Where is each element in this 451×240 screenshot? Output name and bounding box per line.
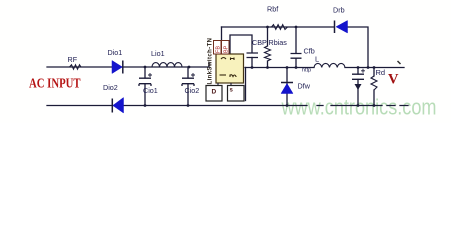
capacitor CBP bottom wire: [251, 58, 253, 68]
svg-text:FB: FB: [215, 46, 221, 53]
svg-text:CBP: CBP: [252, 38, 267, 47]
svg-text:Rbf: Rbf: [267, 5, 278, 14]
wire S pin: [245, 68, 247, 101]
junction Cio1 bottom rail: [144, 104, 147, 107]
svg-text:RF: RF: [68, 55, 78, 64]
diode Dio1: [112, 61, 123, 74]
pin box D: [206, 86, 222, 102]
pin box S: [228, 86, 245, 102]
wire bottom rail right end dashes: [387, 105, 408, 107]
wire bottom rail solid: [47, 105, 307, 107]
pin box FB: [214, 41, 222, 55]
resistor RF: [70, 65, 82, 69]
IC pin stubs: [218, 83, 231, 86]
capacitor Cio2 vertical wires: [187, 67, 189, 106]
junction Rbias source rail: [266, 66, 269, 69]
capacitor Cout wires: [357, 68, 359, 106]
junction Drb return output rail: [367, 66, 370, 69]
svg-text:Lio1: Lio1: [151, 49, 165, 58]
capacitor Cio2 plates: [182, 73, 195, 86]
svg-text:Dio2: Dio2: [103, 83, 118, 92]
wire Dfw branch: [286, 68, 288, 106]
tick mark near output: [398, 61, 401, 64]
svg-text:Dio1: Dio1: [108, 48, 123, 57]
wire FB pin: [221, 27, 223, 41]
capacitor Cout polarity arrow: [355, 84, 362, 90]
capacitor Cout plates: [352, 69, 365, 80]
resistor Rbias wires: [267, 27, 269, 68]
svg-text:V: V: [388, 72, 399, 88]
wire BP pin to CBP: [230, 35, 252, 53]
svg-text:http: http: [302, 68, 311, 74]
wire FB rail top: [222, 27, 369, 68]
wire switch rail: [245, 67, 404, 69]
junction Cout bottom rail: [357, 104, 360, 107]
op-amp U1 : LinkSwitch-TN IC body: [216, 54, 244, 83]
diode Dfw: [281, 83, 293, 94]
junction Cio2 bottom rail: [187, 104, 190, 107]
IC inner pin marks: [220, 58, 237, 78]
resistor Rbf: [272, 25, 288, 30]
junction Dfw bottom rail: [286, 104, 289, 107]
junction Cio2 top rail: [188, 66, 191, 69]
capacitor Cfb plates: [291, 54, 302, 59]
svg-text:Drb: Drb: [333, 6, 345, 15]
svg-text:Dfw: Dfw: [298, 82, 311, 91]
pin box BP: [222, 41, 230, 55]
svg-text:Rbias: Rbias: [269, 38, 288, 47]
svg-text:AC INPUT: AC INPUT: [29, 77, 81, 92]
capacitor Cio1 vertical wires: [144, 67, 146, 106]
junction CBP source rail: [251, 66, 254, 69]
junction Cfb source rail: [295, 66, 298, 69]
svg-text:Cio2: Cio2: [185, 86, 200, 95]
inductor Lio1: [152, 63, 182, 67]
junction Dfw source rail: [286, 66, 289, 69]
junction Cout output rail: [357, 66, 360, 69]
svg-text:Cio1: Cio1: [143, 86, 158, 95]
svg-text:BP: BP: [223, 45, 229, 53]
svg-text:L: L: [315, 55, 319, 64]
resistor Rd wires: [373, 68, 375, 106]
capacitor CBP plates: [247, 53, 259, 58]
wire bottom rail under output: [352, 105, 382, 107]
junction Rd bottom rail: [373, 104, 376, 107]
resistor Rbias zigzag: [265, 46, 271, 61]
wire bottom rail dashed segments: [317, 105, 351, 107]
svg-text:LinkSwitch-TN: LinkSwitch-TN: [208, 38, 214, 85]
wire top input rail: [47, 63, 209, 68]
svg-text:Cfb: Cfb: [304, 47, 315, 56]
inductor L (output): [314, 63, 345, 67]
svg-text:D: D: [212, 89, 217, 96]
svg-text:Rd: Rd: [376, 68, 386, 77]
capacitor Cfb wires: [295, 27, 297, 68]
resistor Rd zigzag: [371, 76, 377, 90]
junction Cio1 top rail: [144, 66, 147, 69]
diode Drb: [335, 21, 348, 34]
junction Rbias FB rail: [266, 26, 269, 29]
capacitor Cio1 plates: [139, 73, 152, 86]
diode Dio2: [112, 98, 123, 114]
junction Cfb FB rail: [295, 26, 298, 29]
junction Rd output rail: [373, 66, 376, 69]
